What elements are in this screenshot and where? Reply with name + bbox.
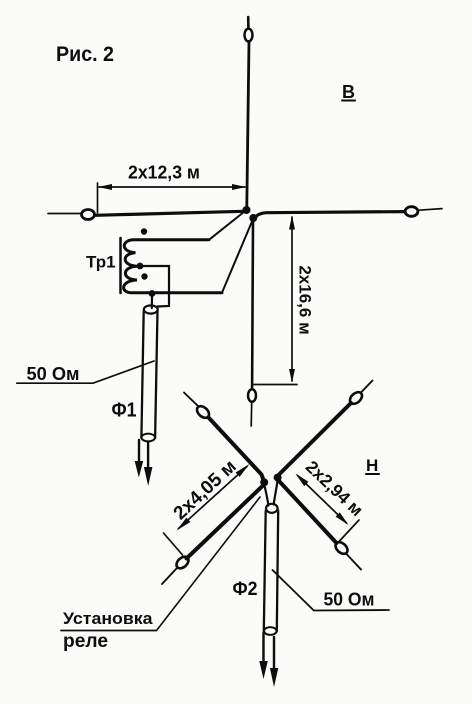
insulator upper-left — [195, 404, 212, 420]
antenna H lower-right thin support — [347, 554, 362, 570]
svg-text:50 Ом: 50 Ом — [324, 590, 375, 610]
wire right horizontal element — [254, 212, 406, 219]
svg-text:50 Ом: 50 Ом — [27, 364, 80, 384]
coax F2 right side — [277, 511, 278, 632]
antenna H lower-right element — [280, 482, 337, 544]
dimension 2x16,6 arrow down — [289, 369, 295, 383]
wire tap to braid — [143, 266, 169, 307]
node vertex left dot — [260, 478, 268, 486]
dimension 2x2,94 boundary tick — [340, 520, 360, 541]
transformer phasing dot lower — [141, 273, 147, 279]
wire diagonal from coil top to junction 1 — [209, 212, 245, 240]
coax F1 arrow left — [138, 440, 140, 464]
transformer tap dot — [137, 263, 144, 270]
antenna H upper-right thin support — [362, 381, 373, 393]
dimension 2x12,3 arrow right — [232, 184, 246, 190]
wire right support thin — [419, 209, 443, 211]
transformer winding coil — [124, 240, 222, 293]
coax F1 arrow right — [147, 442, 149, 470]
dimension 2x4,05 line — [179, 467, 248, 529]
node vertex right dot — [274, 474, 282, 482]
antenna H upper-left thin support — [184, 393, 199, 407]
svg-text:Ф1: Ф1 — [112, 400, 137, 422]
leader 50 Ом lower — [273, 570, 390, 611]
transformer phasing dot upper — [141, 228, 147, 234]
transformer core bar — [119, 238, 122, 293]
node H underline — [366, 473, 379, 475]
antenna H upper-right element — [279, 403, 352, 475]
coax F2 arrow left — [262, 633, 264, 663]
svg-text:2x16,6 м: 2x16,6 м — [296, 265, 315, 334]
dimension 2x2,94 arrow lower — [336, 512, 349, 525]
coax F1 left side — [141, 311, 143, 438]
leader ustanovka underline — [61, 630, 157, 632]
svg-text:2x4,05 м: 2x4,05 м — [170, 456, 241, 524]
antenna H upper-left element — [209, 418, 264, 482]
wire feed right into coax F2 — [274, 481, 278, 505]
dimension 2x4,05 boundary tick — [164, 533, 183, 555]
coax F2 arrow right — [273, 637, 275, 670]
wire vertical upper element — [247, 42, 249, 207]
node B underline — [342, 100, 355, 102]
wire left horizontal element — [96, 211, 244, 215]
dimension 2x4,05 arrow lower — [177, 518, 191, 531]
svg-text:Установка: Установка — [63, 609, 153, 628]
node junction dot 2 — [249, 214, 257, 222]
node dot on bottom wire — [149, 290, 156, 297]
insulator top ellipse — [245, 29, 253, 42]
coax F2 left side — [264, 511, 266, 632]
node junction dot 1 — [243, 206, 251, 214]
dimension 2x2,94 arrow upper — [296, 474, 309, 487]
insulator lower ellipse — [248, 389, 256, 402]
leader 50 Ом upper — [17, 361, 154, 383]
dimension 2x16,6 line — [291, 217, 293, 381]
wire left support thin — [48, 213, 82, 215]
coax F2 bottom ellipse — [264, 627, 277, 635]
dimension 2x12,3 tick left — [97, 183, 99, 213]
insulator left ellipse — [82, 210, 95, 220]
antenna H lower-left thin support — [162, 569, 177, 585]
coax F1 top ellipse — [144, 305, 158, 313]
wire diagonal from coil bottom to junction 2 — [222, 222, 252, 293]
leader ustanovka diagonal — [157, 497, 261, 631]
svg-text:2x12,3 м: 2x12,3 м — [128, 163, 200, 183]
svg-text:В: В — [342, 82, 355, 102]
dimension 2x12,3 line — [99, 186, 245, 188]
dimension 2x4,05 arrow upper — [236, 464, 250, 477]
dimension 2x12,3 arrow left — [98, 184, 112, 190]
wire center conductor into coax F1 — [151, 296, 153, 308]
coax F2 top ellipse — [266, 504, 278, 513]
svg-text:Рис. 2: Рис. 2 — [56, 43, 114, 66]
svg-text:реле: реле — [63, 631, 108, 652]
wire vertical lower element — [251, 222, 254, 388]
antenna H lower-left element — [187, 486, 264, 559]
dimension 2x2,94 line — [298, 476, 347, 524]
svg-text:Ф2: Ф2 — [233, 578, 258, 600]
svg-text:Н: Н — [366, 456, 378, 475]
insulator upper-right — [348, 390, 365, 406]
coax F1 right side — [155, 311, 157, 438]
dimension 2x16,6 arrow up — [289, 216, 295, 230]
wire feed left into coax F2 — [265, 486, 269, 506]
wire top stub — [247, 17, 250, 29]
insulator lower-left — [174, 554, 191, 570]
wire lower support thin — [250, 403, 253, 427]
coax F1 bottom ellipse — [141, 434, 155, 442]
dimension 2x16,6 boundary line — [254, 384, 297, 386]
svg-text:Тр1: Тр1 — [86, 253, 116, 272]
insulator right ellipse — [405, 207, 418, 217]
insulator lower-right — [333, 540, 350, 556]
